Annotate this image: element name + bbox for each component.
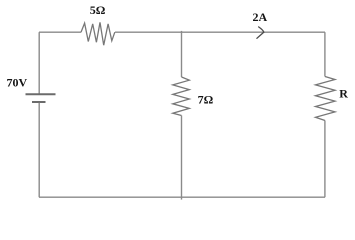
wire: top-right segment from node B to node C (right branch top corner) bbox=[182, 31, 326, 33]
voltage source 70V (battery, short negative plate) bbox=[32, 101, 46, 103]
svg-text:7Ω: 7Ω bbox=[198, 93, 214, 107]
svg-text:2A: 2A bbox=[253, 10, 268, 24]
wire: top-left segment from node A (left rail) to resistor 5Ω bbox=[39, 31, 81, 33]
wire: right branch lower segment from resistor R down to bottom-right corner bbox=[324, 121, 326, 198]
wire: middle branch lower segment from resistor 7Ω down to node D on bottom rail bbox=[181, 116, 183, 200]
wire: left rail upper segment from node A down to battery positive plate bbox=[38, 32, 40, 94]
svg-text:R: R bbox=[339, 86, 348, 100]
resistor 7Ω (vertical zigzag) bbox=[173, 77, 190, 116]
svg-text:70V: 70V bbox=[7, 76, 28, 90]
svg-text:5Ω: 5Ω bbox=[90, 3, 106, 17]
wire: middle branch upper segment from node B down to resistor 7Ω bbox=[181, 31, 183, 77]
resistor 5Ω (horizontal zigzag) bbox=[81, 22, 115, 45]
wire: left rail lower segment from battery negative plate down to bottom-left corner bbox=[38, 103, 40, 197]
wire: top segment from resistor 5Ω to node B (middle branch junction) bbox=[115, 31, 182, 33]
wire: bottom rail from bottom-left corner to bottom-right corner (node D junction at middle) bbox=[39, 196, 325, 198]
resistor R (vertical zigzag) bbox=[316, 77, 336, 121]
current arrow 2A (arrowhead on top wire pointing right) bbox=[257, 27, 264, 38]
voltage source 70V (battery, long positive plate) bbox=[26, 93, 56, 95]
wire: right branch upper segment from node C down to resistor R bbox=[324, 32, 326, 76]
